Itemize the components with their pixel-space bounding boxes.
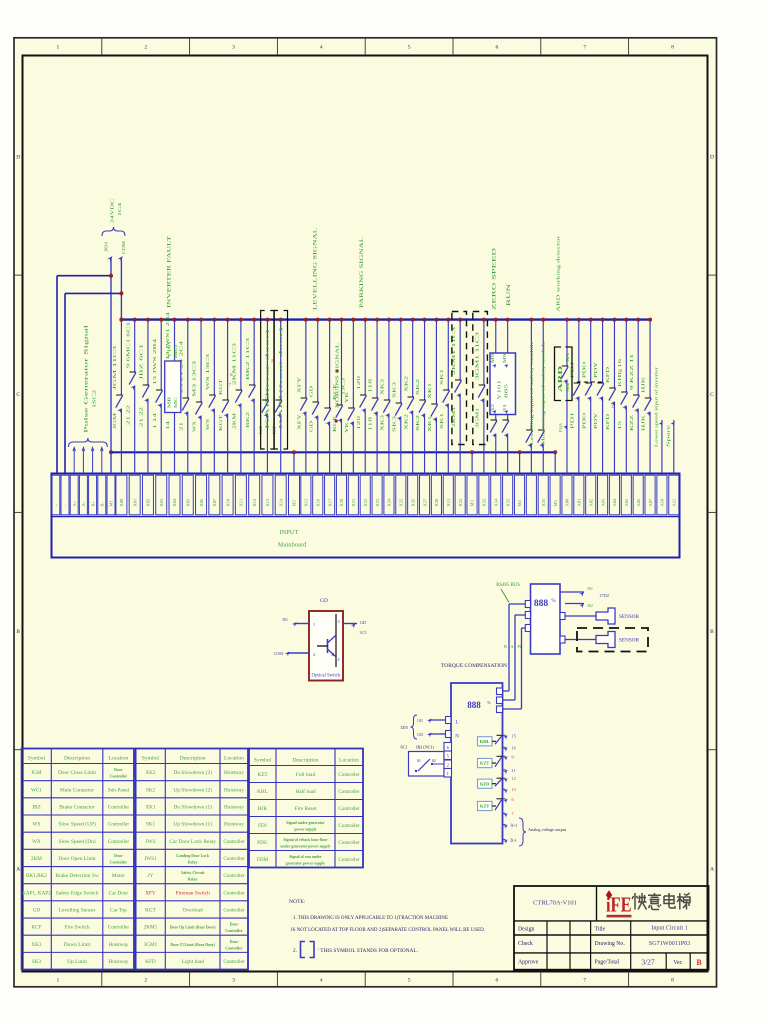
svg-text:SK2: SK2	[416, 415, 420, 431]
svg-text:X00: X00	[119, 498, 124, 506]
svg-text:Description: Description	[64, 755, 90, 761]
svg-text:ARD: ARD	[557, 365, 564, 392]
svg-text:24VDC: 24VDC	[110, 199, 115, 223]
svg-text:Symbol: Symbol	[142, 755, 160, 761]
svg-text:Controller: Controller	[108, 804, 130, 810]
svg-text:Controller: Controller	[338, 806, 360, 812]
svg-text:3: 3	[232, 978, 235, 984]
svg-text:Description: Description	[180, 755, 206, 761]
svg-text:JGM: JGM	[31, 770, 42, 776]
svg-text:4: 4	[320, 45, 323, 51]
svg-text:62: 62	[432, 759, 436, 763]
svg-text:KGT: KGT	[219, 414, 223, 431]
svg-text:X3: X3	[566, 353, 570, 362]
svg-text:D: D	[16, 154, 20, 160]
svg-text:Ver.: Ver.	[673, 960, 683, 966]
svg-text:SK3: SK3	[392, 382, 396, 398]
svg-text:B: B	[710, 629, 714, 635]
svg-text:Sub-Panel: Sub-Panel	[108, 787, 130, 793]
svg-text:Approve: Approve	[518, 960, 539, 966]
svg-text:NOR/INS SIGNAL: NOR/INS SIGNAL	[335, 342, 340, 408]
svg-text:7: 7	[229, 382, 231, 387]
svg-text:103: 103	[417, 732, 423, 737]
svg-text:X25: X25	[399, 498, 404, 506]
svg-text:SENSOR: SENSOR	[619, 614, 639, 620]
svg-text:N: N	[455, 735, 459, 740]
svg-text:B+: B+	[90, 500, 95, 506]
svg-text:%: %	[551, 599, 555, 604]
svg-text:Hoistway: Hoistway	[224, 822, 244, 828]
svg-text:X23: X23	[375, 498, 380, 506]
svg-text:XFY: XFY	[145, 890, 156, 896]
svg-text:Description: Description	[292, 757, 318, 763]
svg-text:FDG: FDG	[257, 840, 268, 846]
svg-text:11: 11	[512, 768, 516, 773]
svg-text:6C1: 6C1	[401, 745, 408, 750]
svg-text:C: C	[16, 392, 20, 398]
svg-text:Y101: Y101	[167, 341, 172, 358]
svg-text:X22: X22	[363, 499, 368, 507]
svg-text:KGT: KGT	[219, 378, 223, 395]
svg-text:4: 4	[320, 978, 323, 984]
svg-text:14: 14	[166, 421, 170, 430]
svg-text:12: 12	[512, 776, 516, 781]
svg-text:PE: PE	[517, 644, 522, 649]
svg-text:Brake Detection Sw: Brake Detection Sw	[55, 873, 99, 879]
svg-text:L: L	[455, 721, 458, 726]
svg-text:C: C	[710, 392, 714, 398]
svg-text:SK1: SK1	[440, 413, 444, 429]
svg-text:M8: M8	[491, 354, 495, 363]
svg-text:Controller: Controller	[338, 840, 360, 846]
svg-text:6: 6	[496, 45, 499, 51]
svg-text:X20: X20	[339, 498, 344, 506]
svg-text:Input Circuit 1: Input Circuit 1	[651, 925, 687, 932]
svg-text:XK1: XK1	[428, 383, 432, 399]
svg-text:XK3: XK3	[381, 415, 385, 431]
svg-text:X05: X05	[185, 498, 190, 506]
svg-text:Door Open Limit: Door Open Limit	[58, 856, 96, 862]
svg-text:3: 3	[232, 45, 235, 51]
svg-text:X35: X35	[505, 498, 510, 506]
svg-text:BK2: BK2	[246, 412, 250, 428]
svg-text:Controller: Controller	[110, 775, 128, 779]
svg-text:XFY: XFY	[297, 414, 301, 430]
svg-text:JWS1: JWS1	[144, 856, 157, 862]
svg-text:Full load: Full load	[296, 772, 316, 778]
svg-text:Car Door: Car Door	[109, 890, 129, 896]
svg-text:XFY: XFY	[297, 377, 301, 393]
svg-text:XK2: XK2	[145, 770, 155, 776]
svg-text:Relay: Relay	[188, 860, 198, 864]
svg-text:Controller: Controller	[223, 873, 245, 879]
svg-text:6: 6	[230, 372, 232, 377]
svg-text:GD: GD	[320, 598, 328, 604]
svg-text:Controller: Controller	[108, 925, 130, 931]
svg-text:JGM 11C3: JGM 11C3	[113, 346, 117, 390]
svg-text:SK3: SK3	[32, 959, 42, 965]
svg-text:21 22: 21 22	[126, 405, 130, 425]
svg-text:Brake Contactor: Brake Contactor	[59, 804, 95, 810]
svg-text:6: 6	[512, 797, 514, 802]
svg-text:GD: GD	[309, 386, 313, 397]
svg-text:1D3: 1D3	[400, 725, 408, 730]
svg-text:Car Top: Car Top	[110, 907, 127, 913]
svg-text:M2: M2	[292, 500, 297, 506]
svg-text:Lower speed input of inverter: Lower speed input of inverter	[654, 366, 659, 447]
svg-text:B-: B-	[100, 501, 105, 506]
svg-text:JY: JY	[148, 873, 154, 879]
svg-text:KZT: KZT	[480, 761, 489, 766]
svg-text:X34: X34	[493, 498, 498, 506]
svg-text:COM: COM	[273, 651, 283, 656]
svg-text:under generator power supply: under generator power supply	[280, 845, 330, 849]
svg-text:Fireman Switch: Fireman Switch	[176, 890, 211, 896]
svg-text:13: 13	[618, 368, 622, 373]
svg-text:M5: M5	[553, 499, 558, 506]
svg-text:KHL: KHL	[257, 789, 268, 795]
svg-text:Controller: Controller	[223, 890, 245, 896]
svg-text:888: 888	[534, 599, 549, 609]
svg-text:Controller: Controller	[223, 856, 245, 862]
svg-text:GD: GD	[360, 620, 366, 625]
svg-text:X06: X06	[199, 498, 204, 506]
svg-text:WX: WX	[193, 421, 197, 432]
svg-text:21 22: 21 22	[140, 407, 144, 427]
svg-text:MC: MC	[174, 396, 178, 408]
svg-text:M3 13C3: M3 13C3	[193, 361, 197, 397]
svg-text:1: 1	[57, 978, 60, 984]
svg-text:8: 8	[671, 45, 674, 51]
svg-text:16: 16	[512, 745, 516, 750]
svg-text:X24: X24	[387, 498, 392, 506]
svg-text:BK2 11C3: BK2 11C3	[246, 338, 250, 380]
svg-text:XK3: XK3	[31, 942, 41, 948]
svg-text:JBZ 6C1: JBZ 6C1	[140, 344, 144, 380]
svg-text:Door Close Limit: Door Close Limit	[58, 770, 97, 776]
svg-text:Design: Design	[518, 927, 535, 933]
svg-text:RS485 BUS: RS485 BUS	[496, 583, 520, 588]
svg-text:Half load: Half load	[295, 788, 316, 795]
svg-text:Location: Location	[108, 755, 128, 761]
svg-text:SENSOR: SENSOR	[619, 638, 639, 644]
svg-text:2: 2	[313, 652, 315, 657]
svg-text:%: %	[487, 700, 491, 705]
svg-text:118: 118	[369, 417, 373, 431]
svg-text:3GM1: 3GM1	[144, 942, 158, 948]
svg-text:X01: X01	[132, 499, 137, 507]
svg-text:885: 885	[504, 384, 509, 398]
svg-text:X4: X4	[566, 383, 570, 392]
svg-text:885: 885	[173, 345, 178, 358]
svg-text:INPUT: INPUT	[279, 529, 298, 536]
svg-text:XK1: XK1	[428, 416, 432, 432]
svg-text:Controller: Controller	[108, 839, 130, 845]
svg-text:Drawing No.: Drawing No.	[595, 941, 626, 947]
svg-text:15: 15	[618, 421, 622, 430]
svg-text:WS 13C3: WS 13C3	[206, 354, 210, 390]
svg-text:X31: X31	[446, 499, 451, 507]
svg-text:RUN: RUN	[506, 283, 512, 306]
svg-text:M9: M9	[503, 354, 507, 363]
svg-text:X02: X02	[146, 499, 151, 507]
svg-text:Location: Location	[339, 757, 359, 763]
svg-text:888: 888	[467, 700, 481, 710]
svg-text:BK1,BK2: BK1,BK2	[26, 873, 47, 879]
svg-text:Analog voltage output: Analog voltage output	[528, 827, 567, 832]
svg-text:12: 12	[611, 404, 615, 409]
svg-text:Door Cl Limit (Rear Door): Door Cl Limit (Rear Door)	[170, 943, 215, 947]
svg-text:5: 5	[408, 978, 411, 984]
svg-text:5: 5	[408, 45, 411, 51]
svg-text:A+: A+	[72, 500, 77, 506]
svg-text:Title: Title	[595, 927, 606, 933]
svg-text:2KM 11C3: 2KM 11C3	[232, 343, 236, 385]
svg-text:7: 7	[583, 45, 586, 51]
svg-text:JBZ: JBZ	[32, 804, 41, 810]
svg-text:power supply: power supply	[294, 828, 316, 832]
svg-text:Door Op Limit (Rear Door): Door Op Limit (Rear Door)	[170, 926, 217, 930]
svg-text:Spare: Spare	[666, 424, 671, 447]
svg-text:CTRL70A-V101: CTRL70A-V101	[533, 900, 577, 907]
svg-text:X17: X17	[327, 498, 332, 506]
svg-text:Controller: Controller	[223, 907, 245, 913]
svg-text:X10: X10	[225, 498, 230, 506]
svg-text:Levelling input of safety modu: Levelling input of safety module	[530, 340, 534, 445]
svg-text:D: D	[710, 154, 714, 160]
svg-text:X27: X27	[422, 498, 427, 506]
svg-text:M4: M4	[517, 499, 522, 506]
svg-text:Safety Edge Switch: Safety Edge Switch	[56, 889, 99, 896]
svg-text:JGM: JGM	[113, 412, 117, 429]
svg-text:2: 2	[447, 763, 449, 768]
svg-text:13: 13	[512, 787, 516, 792]
svg-text:2: 2	[271, 358, 273, 363]
svg-text:KFD: KFD	[606, 414, 610, 430]
svg-text:X13: X13	[265, 498, 270, 506]
svg-text:A05: A05	[624, 498, 629, 506]
svg-text:Hoistway: Hoistway	[224, 804, 244, 810]
svg-text:7: 7	[512, 811, 514, 816]
svg-text:LEVELLING SIGNAL: LEVELLING SIGNAL	[313, 228, 319, 310]
svg-text:1(+): 1(+)	[510, 823, 518, 828]
svg-text:Mainboard: Mainboard	[278, 542, 307, 549]
svg-text:KFD: KFD	[145, 959, 156, 965]
svg-text:1: 1	[447, 771, 449, 776]
svg-text:ZERO SPEED: ZERO SPEED	[492, 248, 498, 310]
svg-text:Optical Switch: Optical Switch	[312, 674, 341, 679]
svg-text:502: 502	[587, 604, 593, 608]
svg-text:J01: J01	[103, 241, 108, 252]
svg-text:A10: A10	[660, 498, 665, 506]
svg-text:M3: M3	[470, 499, 475, 506]
svg-text:A07: A07	[648, 498, 653, 506]
svg-text:KFD: KFD	[480, 781, 489, 786]
svg-text:A: A	[710, 866, 714, 872]
svg-text:501: 501	[587, 587, 593, 591]
svg-text:SK2: SK2	[416, 379, 420, 395]
svg-text:Overload: Overload	[183, 907, 203, 913]
svg-text:Y101: Y101	[497, 380, 502, 400]
svg-text:Fire Reset: Fire Reset	[294, 806, 317, 812]
svg-text:FDJ: FDJ	[258, 823, 267, 829]
svg-text:KGT: KGT	[145, 907, 156, 913]
svg-text:X35: X35	[541, 498, 546, 506]
svg-text:21: 21	[179, 422, 183, 431]
svg-text:A-: A-	[81, 501, 86, 506]
svg-text:GD: GD	[33, 907, 41, 913]
svg-text:WX: WX	[32, 839, 41, 845]
svg-text:XK2: XK2	[404, 376, 408, 392]
svg-text:1. THIS DRAWING IS ONLY APPLIC: 1. THIS DRAWING IS ONLY APPLICABLE TO 1)…	[293, 914, 448, 921]
svg-text:1: 1	[267, 366, 269, 371]
svg-text:' THIS SYMBOL STANDS FOR OPTIO: ' THIS SYMBOL STANDS FOR OPTIONAL.	[318, 948, 418, 954]
svg-text:9 6MC1 6C1: 9 6MC1 6C1	[126, 322, 130, 368]
svg-text:PDY: PDY	[594, 362, 598, 378]
svg-text:A06: A06	[636, 498, 641, 506]
svg-text:KCF: KCF	[31, 925, 41, 931]
svg-text:101: 101	[417, 718, 423, 723]
svg-text:Door: Door	[230, 940, 239, 944]
svg-text:Slow Speed (Dn): Slow Speed (Dn)	[58, 838, 95, 845]
svg-text:X33: X33	[482, 498, 487, 506]
svg-text:XK3: XK3	[381, 379, 385, 395]
svg-text:HJK: HJK	[642, 377, 646, 393]
svg-text:P14A: P14A	[559, 423, 563, 432]
svg-text:Door: Door	[230, 923, 239, 927]
svg-text:KZT: KZT	[257, 772, 268, 778]
svg-text:15: 15	[512, 733, 516, 738]
svg-text:A01: A01	[577, 499, 582, 507]
svg-text:FDM: FDM	[257, 857, 269, 863]
svg-text:TORQUE COMPENSATION: TORQUE COMPENSATION	[441, 663, 507, 669]
svg-text:SK3: SK3	[392, 416, 396, 432]
svg-text:X26: X26	[410, 498, 415, 506]
svg-text:A: A	[16, 866, 20, 872]
svg-text:NOTE:: NOTE:	[289, 899, 306, 905]
svg-text:Dn Slowdown (2): Dn Slowdown (2)	[173, 769, 212, 776]
svg-text:ARD working detector: ARD working detector	[556, 235, 561, 312]
svg-text:X03: X03	[159, 498, 164, 506]
svg-text:KAP2(rear door): KAP2(rear door)	[266, 326, 270, 429]
svg-text:Controller: Controller	[223, 839, 245, 845]
svg-text:WC1: WC1	[31, 787, 42, 793]
svg-text:YK: YK	[345, 422, 349, 433]
svg-text:INVERTER FAULT: INVERTER FAULT	[167, 235, 173, 308]
svg-text:Signal under generator: Signal under generator	[286, 821, 325, 825]
svg-text:SK2: SK2	[146, 787, 156, 793]
svg-text:Slow Speed (UP): Slow Speed (UP)	[58, 821, 96, 828]
svg-text:Dn Slowdown (1): Dn Slowdown (1)	[173, 803, 212, 810]
svg-text:MB: MB	[168, 396, 172, 408]
svg-text:3C5: 3C5	[360, 630, 367, 635]
svg-text:6: 6	[496, 978, 499, 984]
svg-text:X15: X15	[304, 498, 309, 506]
svg-text:Symbol: Symbol	[28, 755, 46, 761]
svg-text:118: 118	[369, 379, 373, 393]
svg-text:Monitoring input of safety mod: Monitoring input of safety module	[542, 341, 546, 445]
svg-text:A00: A00	[565, 498, 570, 506]
svg-text:1 14: 1 14	[153, 413, 157, 429]
svg-text:Pulse Generator Signal: Pulse Generator Signal	[85, 323, 90, 433]
svg-text:X16: X16	[315, 498, 320, 506]
svg-text:1C4: 1C4	[117, 202, 122, 216]
svg-text:Controller: Controller	[338, 823, 360, 829]
svg-text:2: 2	[144, 978, 147, 984]
svg-text:Controller: Controller	[108, 822, 130, 828]
svg-text:GD: GD	[309, 421, 313, 432]
svg-text:Check: Check	[518, 941, 533, 947]
svg-text:A03: A03	[600, 498, 605, 506]
svg-text:Hoistway: Hoistway	[108, 942, 128, 948]
svg-text:KHL: KHL	[480, 739, 490, 744]
svg-text:Down Limit: Down Limit	[64, 942, 91, 948]
svg-text:1: 1	[57, 45, 60, 51]
svg-text:B: B	[696, 958, 702, 967]
svg-text:2KM1: 2KM1	[144, 925, 158, 931]
svg-text:KAP1(front door): KAP1(front door)	[279, 324, 283, 429]
svg-text:X30: X30	[434, 498, 439, 506]
svg-text:KZT: KZT	[480, 804, 489, 809]
svg-text:13 JWS 2B4: 13 JWS 2B4	[153, 339, 157, 385]
svg-text:M1: M1	[109, 500, 114, 506]
svg-text:X12: X12	[252, 499, 257, 507]
svg-text:3/27: 3/27	[641, 958, 655, 967]
svg-text:B: B	[16, 629, 20, 635]
svg-text:J01: J01	[282, 617, 288, 622]
svg-text:X14: X14	[278, 498, 283, 506]
svg-text:Up Limit: Up Limit	[67, 959, 87, 965]
svg-text:X21: X21	[351, 499, 356, 507]
svg-text:Motor: Motor	[112, 873, 125, 879]
svg-text:KAP1, KAP2: KAP1, KAP2	[22, 890, 51, 896]
svg-text:Up Slowdown (2): Up Slowdown (2)	[173, 786, 212, 793]
svg-text:Hoistway: Hoistway	[108, 959, 128, 965]
svg-text:61: 61	[417, 759, 421, 763]
svg-text:XK1: XK1	[145, 804, 155, 810]
svg-text:Controller: Controller	[338, 789, 360, 795]
svg-text:COM: COM	[121, 241, 126, 254]
svg-text:Signal of reback base floor: Signal of reback base floor	[283, 838, 328, 842]
svg-text:KCF: KCF	[333, 414, 337, 432]
svg-text:6: 6	[447, 745, 449, 750]
svg-text:9 KZZ 11: 9 KZZ 11	[630, 354, 634, 390]
svg-text:SK1: SK1	[146, 822, 156, 828]
svg-text:KFD: KFD	[606, 367, 610, 383]
svg-text:Fire Switch: Fire Switch	[65, 925, 90, 931]
svg-text:Levelling Sensor: Levelling Sensor	[59, 907, 96, 913]
svg-text:Hoistway: Hoistway	[224, 787, 244, 793]
svg-text:PARKING SIGNAL: PARKING SIGNAL	[359, 237, 365, 308]
svg-text:Controller: Controller	[338, 857, 360, 863]
svg-text:Signal of run under: Signal of run under	[289, 855, 322, 859]
svg-text:Up Slowdown (1): Up Slowdown (1)	[173, 821, 212, 828]
svg-text:PDO: PDO	[582, 413, 586, 429]
svg-text:Relay: Relay	[188, 878, 198, 882]
svg-text:3GM1: 3GM1	[475, 408, 479, 428]
svg-text:Location: Location	[224, 755, 244, 761]
svg-text:WS: WS	[33, 822, 41, 828]
svg-text:2(-): 2(-)	[510, 838, 517, 843]
svg-text:JB2 (NC1): JB2 (NC1)	[416, 745, 435, 750]
svg-text:X11: X11	[239, 499, 244, 507]
svg-text:IS NOT LOCATED AT TOP FLOOR A: IS NOT LOCATED AT TOP FLOOR AND 2)SEPARA…	[291, 926, 485, 933]
svg-text:A11: A11	[671, 499, 676, 507]
svg-text:X32: X32	[458, 499, 463, 507]
svg-text:2.: 2.	[293, 948, 297, 954]
svg-text:B: B	[504, 644, 507, 649]
svg-text:2KM: 2KM	[31, 856, 42, 862]
